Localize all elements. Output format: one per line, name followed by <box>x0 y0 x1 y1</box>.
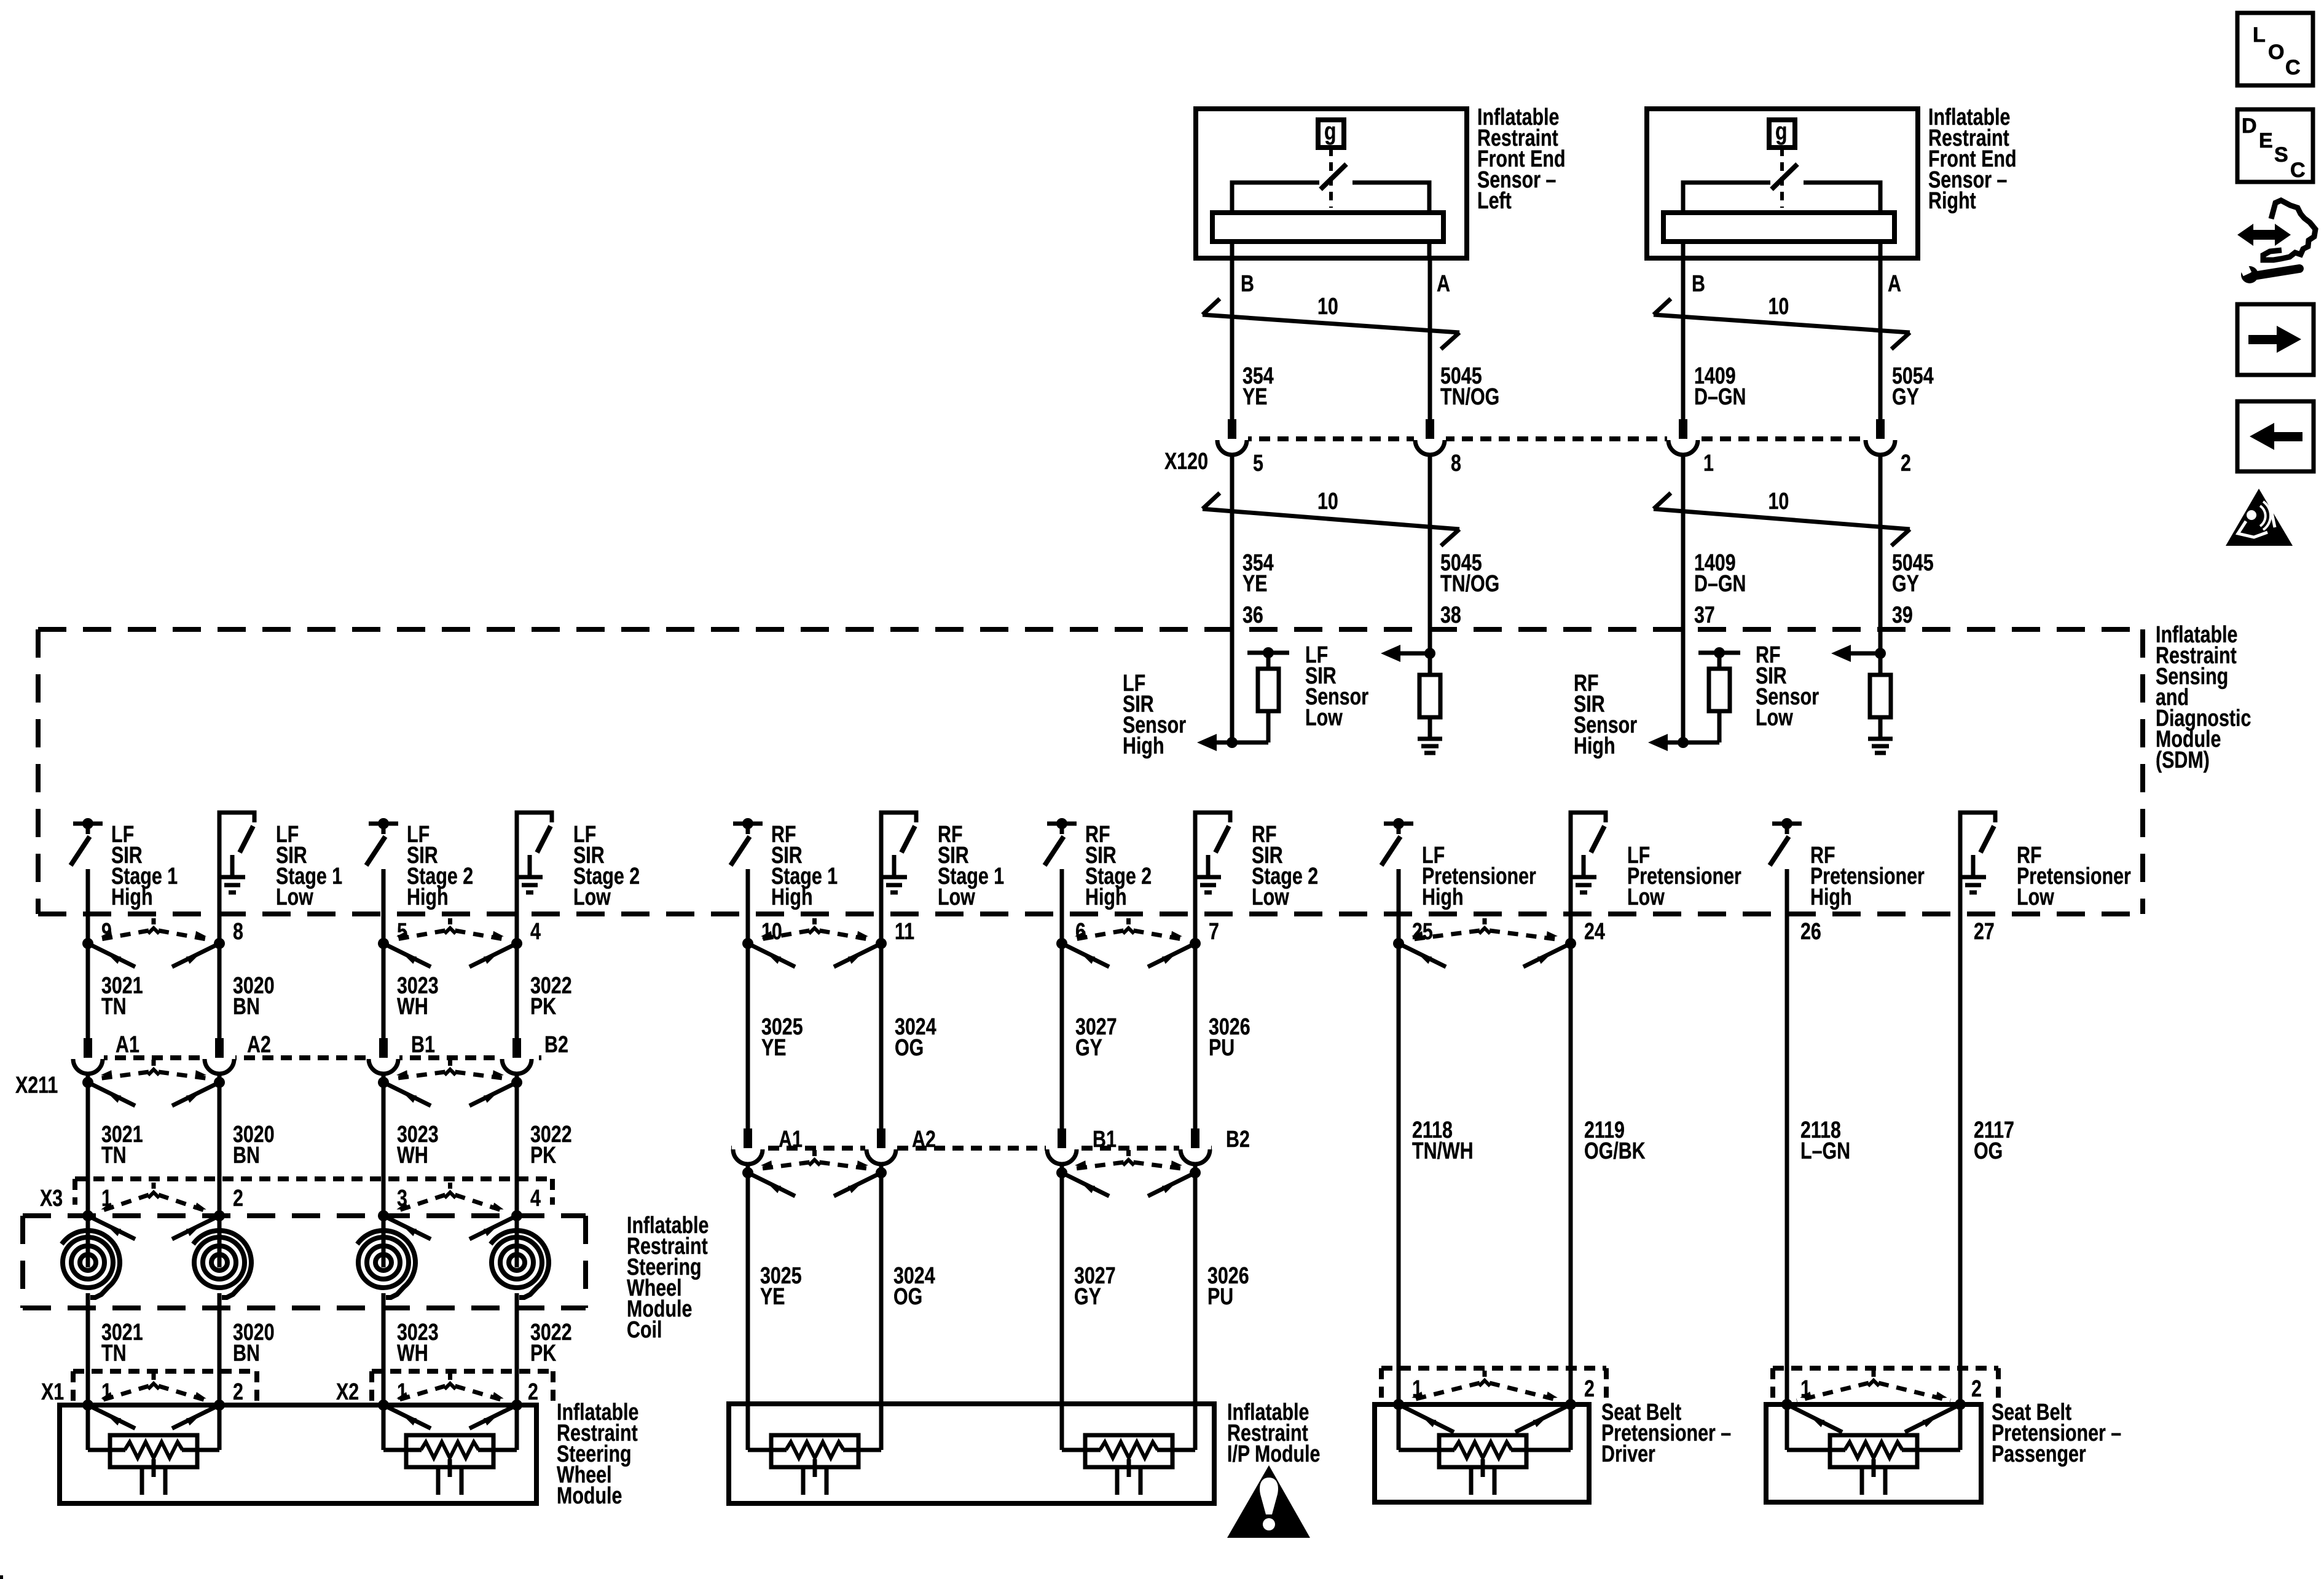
steering wheel coil at x=357 <box>211 1254 227 1270</box>
wire drop into steering wheel squib 2 left <box>382 1405 386 1450</box>
svg-text:5: 5 <box>1253 451 1263 476</box>
Inflatable Restraint I/P Module box <box>729 1404 1214 1503</box>
shorting clip between wires <box>378 1077 389 1088</box>
wire below switch LF Pretensioner Low <box>1569 914 1573 943</box>
connector IP terminal <box>732 1144 764 1152</box>
svg-text:L: L <box>2253 23 2266 47</box>
squib element steering wheel stage1 <box>110 1435 197 1467</box>
wire below switch RF SIR Stage 2 Low <box>1193 914 1198 943</box>
squib IP stage2 left feed <box>1062 1448 1101 1452</box>
connector X120 dashed line <box>1222 436 1893 441</box>
wire 2117 OG SDM to passenger pretensioner <box>1958 914 1963 1404</box>
shorting-bar dashed chevron <box>152 1374 156 1380</box>
svg-text:8: 8 <box>233 919 243 945</box>
sensor left switch dashed line <box>1329 148 1333 208</box>
connector X211 terminal <box>203 1054 235 1061</box>
svg-text:36: 36 <box>1242 602 1263 628</box>
Seat Belt Pretensioner Driver box <box>1375 1404 1589 1502</box>
svg-text:B: B <box>1692 271 1705 297</box>
svg-text:B1: B1 <box>411 1032 435 1058</box>
squib IP stage1 igniter legs <box>801 1467 806 1495</box>
bundle breakout line <box>1654 509 1910 529</box>
SDM module dashed box <box>38 627 2143 632</box>
svg-text:X211: X211 <box>15 1073 58 1098</box>
wire drop into steering wheel squib 1 right <box>218 1405 222 1450</box>
steering wheel coil at x=143 <box>80 1254 96 1270</box>
shorting-bar dashed chevron <box>1126 918 1131 924</box>
sensor left pin B lead <box>1230 242 1235 258</box>
connector X120 terminal 5 <box>1216 435 1248 443</box>
svg-text:B2: B2 <box>1226 1127 1250 1152</box>
wire 1409 D-GN sensor-right B to X120 <box>1681 258 1686 419</box>
bundle breakout right tick <box>1891 333 1910 349</box>
sensor right left contact wire <box>1683 183 1770 213</box>
svg-text:10: 10 <box>1317 489 1338 514</box>
svg-text:A1: A1 <box>779 1127 803 1152</box>
svg-text:A: A <box>1437 271 1450 297</box>
bundle breakout line <box>1203 315 1459 333</box>
wire below switch LF SIR Stage 2 High <box>382 869 386 943</box>
svg-text:X2: X2 <box>336 1379 359 1405</box>
svg-text:E: E <box>2259 129 2273 152</box>
svg-text:B: B <box>1241 271 1254 297</box>
connector X211 terminal <box>72 1054 104 1061</box>
bundle breakout left tick <box>1203 299 1220 315</box>
SDM driver switch (high) for LF SIR Stage 2 High <box>369 822 398 826</box>
wire 5045 GY X120 to SDM pin 39 <box>1878 455 1883 653</box>
wire 3021 TN SDM to X211 <box>86 943 90 1039</box>
shorting-bar dashed chevron <box>448 1060 452 1066</box>
shorting clip between wires <box>1056 1167 1067 1178</box>
wire 354 YE sensor-left B to X120 <box>1230 258 1235 419</box>
squib passenger pretensioner right feed <box>1902 1448 1960 1452</box>
ground symbol at LF SIR Stage 1 Low <box>230 855 235 875</box>
wire below switch RF Pretensioner Low <box>1958 914 1963 943</box>
svg-text:2: 2 <box>528 1379 538 1405</box>
shorting-bar blade right <box>469 1216 517 1239</box>
bundle breakout right tick <box>1891 529 1910 546</box>
shorting-bar blade left <box>1399 1404 1454 1432</box>
squib element IP stage1 <box>771 1435 858 1467</box>
wire 3020 BN coil to X1/X2 <box>218 1293 222 1405</box>
LF SIR Sensor High sensor-high node internals <box>1227 737 1238 748</box>
shorting-bar blade right <box>1148 1173 1195 1196</box>
squib steering wheel stage2 right feed <box>478 1448 517 1452</box>
shorting clip between wires <box>1393 938 1404 949</box>
shorting-bar dashed chevron <box>448 1183 452 1189</box>
wire 3025 YE IP conn to IP module <box>746 1164 750 1450</box>
shorting-bar blade left <box>748 943 795 967</box>
bundle breakout left tick <box>1654 493 1671 509</box>
shorting-bar blade right <box>469 1082 517 1106</box>
wire 1409 D-GN X120 to SDM pin 37 <box>1681 455 1686 742</box>
icon arrow right box <box>2237 304 2314 375</box>
svg-text:A1: A1 <box>116 1032 139 1058</box>
Inflatable Restraint Steering Wheel Module box <box>60 1405 536 1503</box>
svg-text:2: 2 <box>233 1379 243 1405</box>
svg-text:1: 1 <box>1703 451 1714 476</box>
svg-text:A2: A2 <box>247 1032 271 1058</box>
icon SIR airbag caution triangle <box>2226 489 2293 546</box>
icon LOC box <box>2237 13 2313 85</box>
squib passenger pretensioner igniter legs <box>1860 1467 1864 1495</box>
connector X3 dashed line <box>75 1176 552 1181</box>
squib element IP stage2 <box>1085 1435 1172 1467</box>
shorting clip between wires <box>82 1400 93 1411</box>
shorting-bar dashed chevron <box>1483 1371 1487 1377</box>
shorting-bar blade right <box>172 943 219 967</box>
shorting-bar blade right <box>172 1216 219 1239</box>
shorting-bar blade left <box>88 1082 135 1106</box>
bundle breakout left tick <box>1654 299 1671 315</box>
connector X211 dashed line <box>78 1055 541 1060</box>
shorting-bar dashed chevron <box>812 1150 817 1156</box>
wire drop into passenger squib right <box>1958 1404 1963 1450</box>
wire below switch LF Pretensioner High <box>1397 869 1401 943</box>
squib IP stage1 right feed <box>843 1448 881 1452</box>
svg-text:X3: X3 <box>40 1186 63 1211</box>
svg-text:X1: X1 <box>41 1379 64 1405</box>
page corner mark <box>0 1575 3 1579</box>
SDM driver switch (low) for LF Pretensioner Low <box>1571 813 1606 914</box>
sensor right pin A lead <box>1878 242 1883 258</box>
wire 5045 TN/OG X120 to SDM pin 38 <box>1428 455 1432 653</box>
SDM driver switch (low) for RF SIR Stage 2 Low <box>1195 813 1230 914</box>
svg-text:38: 38 <box>1440 602 1461 628</box>
wire 3027 GY IP conn to IP module <box>1060 1164 1064 1450</box>
svg-text:39: 39 <box>1892 602 1913 628</box>
SDM driver switch (high) for LF Pretensioner High <box>1384 822 1413 826</box>
svg-text:O: O <box>2268 41 2284 64</box>
LF SIR Sensor Low sensor-low node internals <box>1424 648 1435 659</box>
ground symbol at LF Pretensioner Low <box>1582 855 1586 875</box>
wire 5054 GY sensor-right A to X120 <box>1878 258 1883 419</box>
connector IP terminal <box>1046 1144 1078 1152</box>
connector X120 terminal 8 <box>1414 435 1446 443</box>
bundle breakout left tick <box>1203 493 1220 509</box>
svg-text:10: 10 <box>1769 294 1789 320</box>
svg-text:11: 11 <box>895 919 914 945</box>
wire 3022 PK SDM to X211 <box>515 943 519 1039</box>
wire 2118 L-GN SDM to passenger pretensioner <box>1785 914 1789 1404</box>
wire drop into steering wheel squib 1 left <box>86 1405 90 1450</box>
shorting-bar blade left <box>1062 943 1109 967</box>
connector X120 terminal 2 <box>1864 435 1896 443</box>
sensor left left contact wire <box>1232 183 1319 213</box>
wire 3022 PK coil to X1/X2 <box>515 1293 519 1405</box>
svg-text:27: 27 <box>1974 919 1995 945</box>
shorting-bar dashed chevron <box>152 918 156 924</box>
wire 3025 YE SDM to IP conn <box>746 943 750 1128</box>
connector IP dashed line <box>731 1146 1212 1151</box>
svg-text:8: 8 <box>1451 451 1461 476</box>
shorting clip between wires <box>1393 1399 1404 1410</box>
sensor left mass bar <box>1212 213 1443 242</box>
passenger pretensioner connector dashed line <box>1773 1366 1998 1371</box>
squib IP stage2 igniter legs <box>1115 1467 1120 1495</box>
svg-text:24: 24 <box>1584 919 1605 945</box>
shorting-bar blade left <box>383 1082 431 1106</box>
wire 3023 WH coil to X1/X2 <box>382 1293 386 1405</box>
svg-text:A2: A2 <box>912 1127 936 1152</box>
wire 3026 PU SDM to IP conn <box>1193 943 1198 1128</box>
connector X211 terminal <box>501 1054 533 1061</box>
icon DESC box <box>2237 109 2313 182</box>
squib driver pretensioner right feed <box>1511 1448 1571 1452</box>
shorting-bar blade right <box>1905 1404 1960 1432</box>
svg-text:B2: B2 <box>544 1032 568 1058</box>
RF SIR Sensor Low sensor-low node internals <box>1875 648 1886 659</box>
svg-text:D: D <box>2242 114 2257 138</box>
ground symbol at RF SIR Stage 1 Low <box>892 855 897 875</box>
svg-text:A: A <box>1888 271 1901 297</box>
wire below switch RF SIR Stage 1 Low <box>879 914 884 943</box>
squib IP stage2 right feed <box>1157 1448 1195 1452</box>
wire 3024 OG SDM to IP conn <box>879 943 884 1128</box>
svg-text:10: 10 <box>1769 489 1789 514</box>
SIR caution triangle below I/P module <box>1227 1465 1310 1538</box>
svg-text:26: 26 <box>1800 919 1821 945</box>
ground symbol at RF SIR Stage 2 Low <box>1206 855 1211 875</box>
shorting-bar blade right <box>834 943 881 967</box>
wire below switch RF Pretensioner High <box>1785 869 1789 943</box>
shorting-bar dashed chevron <box>1872 1371 1876 1377</box>
SDM driver switch (low) for RF Pretensioner Low <box>1960 813 1995 914</box>
shorting clip between wires <box>1781 1399 1792 1410</box>
shorting clip between wires <box>378 938 389 949</box>
SDM driver switch (low) for LF SIR Stage 2 Low <box>517 813 552 914</box>
ground symbol at LF SIR Stage 2 Low <box>528 855 532 875</box>
svg-text:C: C <box>2285 56 2301 79</box>
SDM driver switch (high) for LF SIR Stage 1 High <box>73 822 103 826</box>
steering wheel module coil dashed box <box>23 1213 586 1218</box>
shorting clip between wires <box>378 1400 389 1411</box>
squib steering wheel stage1 left feed <box>88 1448 125 1452</box>
wire 2118 TN/WH SDM to driver pretensioner <box>1397 943 1401 1404</box>
wire below switch RF SIR Stage 2 High <box>1060 869 1064 943</box>
wire 3023 WH X211 to X3 <box>382 1074 386 1216</box>
ground symbol at RF Pretensioner Low <box>1971 855 1976 875</box>
sensor right pin B lead <box>1681 242 1686 258</box>
svg-text:4: 4 <box>530 1186 541 1211</box>
sensor right switch dashed line <box>1780 148 1784 208</box>
sensor left pin A lead <box>1427 242 1432 258</box>
shorting-bar blade left <box>88 1405 135 1428</box>
wire below switch RF SIR Stage 1 High <box>746 869 750 943</box>
shorting-bar blade right <box>469 1405 517 1428</box>
shorting-bar blade left <box>1062 1173 1109 1196</box>
shorting-bar blade left <box>88 1216 135 1239</box>
icon connector-view with wrench <box>2250 230 2279 240</box>
shorting-bar dashed chevron <box>1483 918 1487 924</box>
shorting clip between wires <box>742 1167 753 1178</box>
squib IP stage1 left feed <box>748 1448 787 1452</box>
icon arrow left box <box>2237 401 2314 471</box>
sensor left g symbol <box>1318 120 1344 148</box>
shorting-bar dashed chevron <box>812 918 817 924</box>
SDM driver switch (low) for LF SIR Stage 1 Low <box>219 813 254 914</box>
bundle breakout line <box>1654 315 1910 333</box>
SDM driver switch (high) for RF Pretensioner High <box>1772 822 1802 826</box>
squib element driver pretensioner <box>1439 1435 1526 1467</box>
shorting-bar dashed chevron <box>152 1183 156 1189</box>
svg-text:1: 1 <box>397 1379 407 1405</box>
squib driver pretensioner left feed <box>1399 1448 1454 1452</box>
connector IP terminal <box>865 1144 897 1152</box>
shorting clip between wires <box>82 1210 93 1221</box>
shorting-bar blade left <box>748 1173 795 1196</box>
sensor right switch blade <box>1772 164 1797 189</box>
connector X120 terminal 1 <box>1667 435 1699 443</box>
wire below switch LF SIR Stage 1 Low <box>218 914 222 943</box>
svg-text:7: 7 <box>1209 919 1219 945</box>
shorting clip between wires <box>378 1210 389 1221</box>
squib steering wheel stage2 left feed <box>383 1448 422 1452</box>
wire 3022 PK X211 to X3 <box>515 1074 519 1216</box>
squib driver pretensioner igniter legs <box>1469 1467 1474 1495</box>
connector IP terminal <box>1179 1144 1211 1152</box>
wire 3021 TN coil to X1/X2 <box>86 1293 90 1405</box>
SDM driver switch (high) for RF SIR Stage 1 High <box>733 822 763 826</box>
shorting-bar dashed chevron <box>448 918 452 924</box>
squib element steering wheel stage2 <box>406 1435 493 1467</box>
front end sensor left box <box>1196 109 1467 258</box>
svg-text:2: 2 <box>1971 1376 1982 1402</box>
shorting clip between wires <box>1056 938 1067 949</box>
wire 3026 PU IP conn to IP module <box>1193 1164 1198 1450</box>
bundle breakout right tick <box>1441 333 1459 349</box>
shorting-bar blade left <box>383 1405 431 1428</box>
shorting-bar dashed chevron <box>152 1060 156 1066</box>
svg-text:InflatableRestraintI/P Module: InflatableRestraintI/P Module <box>1227 1400 1320 1467</box>
shorting-bar dashed chevron <box>1126 1150 1131 1156</box>
squib passenger pretensioner left feed <box>1787 1448 1845 1452</box>
shorting-bar blade right <box>1148 943 1195 967</box>
shorting clip between wires <box>742 938 753 949</box>
SDM driver switch (high) for RF SIR Stage 2 High <box>1047 822 1077 826</box>
connector X211 terminal <box>367 1054 399 1061</box>
ground symbol LF SIR Sensor Low <box>1418 737 1442 741</box>
front end sensor right box <box>1647 109 1918 258</box>
shorting clip between wires <box>82 938 93 949</box>
SDM driver switch (low) for RF SIR Stage 1 Low <box>881 813 916 914</box>
steering wheel coil at x=624 <box>375 1254 391 1270</box>
shorting-bar blade left <box>383 1216 431 1239</box>
shorting-bar blade right <box>1523 943 1571 967</box>
wire below switch LF SIR Stage 2 Low <box>515 914 519 943</box>
wire drop into driver squib right <box>1569 1404 1573 1450</box>
svg-text:X120: X120 <box>1164 449 1208 474</box>
connector X1 dashed line <box>73 1369 257 1374</box>
wire 354 YE X120 to SDM pin 36 <box>1230 455 1235 742</box>
sensor right mass bar <box>1663 213 1894 242</box>
sensor right right contact wire <box>1804 183 1880 213</box>
svg-text:10: 10 <box>1317 294 1338 320</box>
shorting-bar blade left <box>1399 943 1446 967</box>
shorting-bar blade left <box>88 943 135 967</box>
shorting-bar blade right <box>469 943 517 967</box>
Seat Belt Pretensioner Passenger box <box>1766 1404 1981 1502</box>
wire below switch LF SIR Stage 1 High <box>86 869 90 943</box>
svg-text:2: 2 <box>1584 1376 1595 1402</box>
svg-text:B1: B1 <box>1093 1127 1117 1152</box>
shorting-bar blade right <box>172 1405 219 1428</box>
bundle breakout right tick <box>1441 529 1459 546</box>
squib steering wheel stage1 right feed <box>182 1448 219 1452</box>
sensor left right contact wire <box>1352 183 1429 213</box>
sensor right g symbol <box>1769 120 1795 148</box>
svg-text:S: S <box>2274 143 2288 167</box>
connector X2 dashed line <box>372 1369 553 1374</box>
shorting-bar dashed chevron <box>448 1374 452 1380</box>
RF SIR Sensor High sensor-high node internals <box>1678 737 1689 748</box>
ground symbol RF SIR Sensor Low <box>1868 737 1893 741</box>
wire 3023 WH SDM to X211 <box>382 943 386 1039</box>
wire 3020 BN SDM to X211 <box>218 943 222 1039</box>
wire 3020 BN X211 to X3 <box>218 1074 222 1216</box>
svg-text:1: 1 <box>101 1379 112 1405</box>
wire drop into driver squib left <box>1397 1404 1401 1450</box>
svg-text:4: 4 <box>530 919 541 945</box>
wire drop into steering wheel squib 2 right <box>515 1405 519 1450</box>
svg-text:2: 2 <box>233 1186 243 1211</box>
shorting-bar blade left <box>383 943 431 967</box>
squib steering wheel stage2 igniter legs <box>436 1467 441 1495</box>
shorting-bar blade right <box>1515 1404 1571 1432</box>
shorting-bar blade right <box>834 1173 881 1196</box>
svg-text:g: g <box>1324 117 1337 145</box>
driver pretensioner connector dashed line <box>1381 1366 1606 1371</box>
svg-text:37: 37 <box>1694 602 1715 628</box>
wire 3027 GY SDM to IP conn <box>1060 943 1064 1128</box>
squib element passenger pretensioner <box>1830 1435 1917 1467</box>
squib steering wheel stage1 igniter legs <box>140 1467 144 1495</box>
svg-text:C: C <box>2290 159 2306 182</box>
wire 3021 TN X211 to X3 <box>86 1074 90 1216</box>
sensor left switch blade <box>1321 164 1346 189</box>
bundle breakout line <box>1203 509 1459 529</box>
wire 3024 OG IP conn to IP module <box>879 1164 884 1450</box>
wire 5045 TN/OG sensor-left A to X120 <box>1428 258 1432 419</box>
svg-text:2: 2 <box>1901 451 1911 476</box>
svg-text:g: g <box>1775 117 1788 145</box>
wire drop into passenger squib left <box>1785 1404 1789 1450</box>
shorting clip between wires <box>82 1077 93 1088</box>
wire 2119 OG/BK SDM to driver pretensioner <box>1569 943 1573 1404</box>
steering wheel coil at x=841 <box>509 1254 525 1270</box>
shorting-bar blade right <box>172 1082 219 1106</box>
shorting-bar blade left <box>1787 1404 1842 1432</box>
